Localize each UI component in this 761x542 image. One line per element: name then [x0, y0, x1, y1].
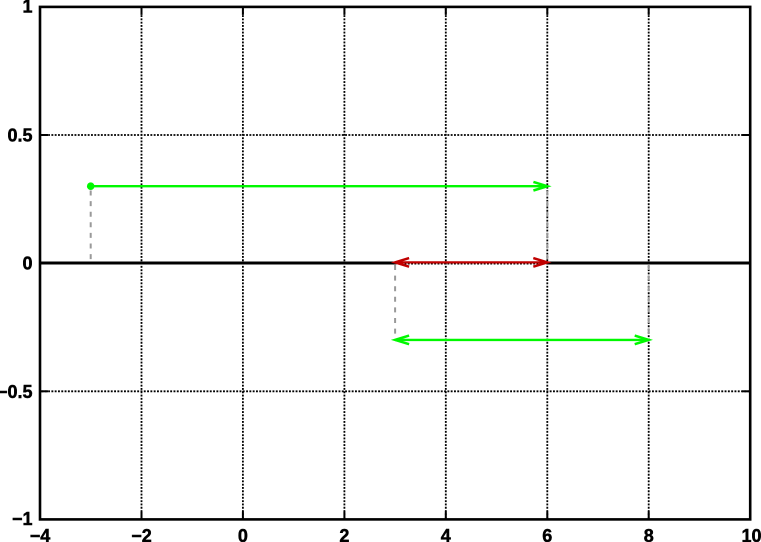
red double arrow at y=0 from x=3 to x=6 [395, 258, 547, 267]
green arrow at y=0.3 from x=-3 to x=6 with start dot [91, 182, 548, 191]
svg-text:0: 0 [22, 254, 32, 274]
y axis labels [0, 0, 33, 529]
svg-text:0: 0 [238, 526, 248, 542]
svg-text:1: 1 [22, 0, 32, 16]
dotted grid horizontal lines [42, 135, 749, 391]
svg-text:−2: −2 [131, 526, 152, 542]
gray dashed vertical guides [91, 191, 649, 335]
svg-text:−4: −4 [30, 526, 51, 542]
svg-text:8: 8 [644, 526, 654, 542]
svg-text:10: 10 [741, 526, 761, 542]
svg-text:2: 2 [339, 526, 349, 542]
svg-text:4: 4 [441, 526, 451, 542]
dotted grid vertical lines [142, 9, 649, 518]
green double arrow at y=-0.3 from x=3 to x=8 [395, 336, 649, 345]
svg-text:−0.5: −0.5 [0, 382, 33, 402]
black zero-line segments [40, 262, 750, 265]
svg-text:0.5: 0.5 [7, 126, 32, 146]
svg-text:6: 6 [542, 526, 552, 542]
x axis labels [30, 526, 761, 542]
